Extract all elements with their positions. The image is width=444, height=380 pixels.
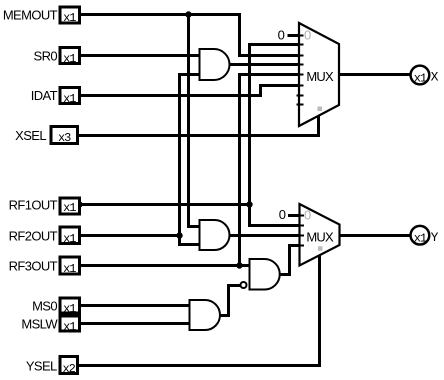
svg-text:MUX: MUX [306, 229, 334, 244]
wire constant 0 to MUX1 input0 [288, 34, 300, 37]
port box MSLW x1 [60, 316, 80, 331]
wire RF2OUT row [80, 234, 180, 237]
output pad Y x1 [411, 226, 430, 246]
wire RF3OUT row to U3 input1 [80, 264, 250, 267]
port box YSEL x2 [60, 357, 78, 374]
port box RF2OUT x1 [60, 227, 80, 244]
port box IDAT x1 [60, 88, 80, 104]
wire MEMOUT branch down to AND2 input1 [189, 15, 200, 227]
junction RF1OUT at box [76, 201, 82, 207]
svg-text:x1: x1 [63, 232, 76, 246]
svg-text:0: 0 [278, 28, 285, 43]
svg-text:x1: x1 [414, 231, 427, 245]
and-gate AND1 (SR0 AND RF2OUT) [200, 49, 230, 80]
svg-text:RF3OUT: RF3OUT [9, 259, 58, 274]
svg-text:XSEL: XSEL [15, 128, 46, 143]
port box SR0 x1 [60, 48, 80, 64]
svg-text:x1: x1 [63, 201, 76, 215]
wire RF1OUT branch up to MUX1 input1 and down to MUX2 input1 [250, 45, 300, 226]
port box XSEL x3 [51, 127, 78, 144]
svg-text:x1: x1 [63, 11, 76, 25]
junction MEMOUT branch [185, 11, 191, 17]
svg-text:0: 0 [279, 207, 286, 222]
svg-text:x2: x2 [62, 362, 75, 376]
svg-text:x1: x1 [63, 262, 76, 276]
port box MEMOUT x1 [60, 7, 80, 23]
svg-text:RF1OUT: RF1OUT [9, 198, 58, 213]
mux U6 MUX (Y output) [297, 204, 340, 266]
wire IDAT row with step up to MUX1 input5 [80, 86, 299, 96]
junction RF2OUT column [176, 232, 182, 238]
svg-text:x1: x1 [63, 302, 76, 316]
wire AND1 output to MUX1 input3 [230, 63, 300, 66]
wire AND4 output to U3 inverted input [220, 286, 241, 316]
wire RF1OUT row [80, 203, 250, 206]
wire XSEL select to MUX1 bottom [79, 114, 319, 136]
svg-text:MSLW: MSLW [21, 317, 58, 332]
svg-text:SR0: SR0 [34, 48, 58, 63]
svg-text:RF2OUT: RF2OUT [9, 228, 58, 243]
wire U3 output to MUX2 input3 [280, 246, 300, 275]
wire MUX2 output Y [340, 234, 412, 237]
inverter bubble on U3 input2 [241, 282, 247, 288]
port box MS0 x1 [60, 298, 80, 313]
svg-text:YSEL: YSEL [26, 359, 57, 374]
wire MUX1 output X [339, 73, 411, 76]
svg-text:x1: x1 [63, 52, 76, 66]
and-gate AND4 (MS0 AND MSLW) [190, 300, 221, 330]
wire constant 0 to MUX2 input0 [288, 214, 300, 217]
svg-text:x1: x1 [414, 71, 427, 85]
wire AND2 output to MUX2 input2 [230, 234, 300, 237]
port box RF1OUT x1 [60, 198, 80, 214]
junction RF3OUT column [236, 262, 242, 268]
wire YSEL select to MUX2 bottom [79, 254, 320, 366]
output pad X x1 [411, 66, 430, 86]
svg-text:x3: x3 [58, 131, 71, 145]
junction RF1OUT column [246, 201, 252, 207]
and-gate U3 (RF3OUT AND NOT ms) [250, 259, 280, 290]
wire RF2OUT branch up to AND1 input2 and down to AND2 input2 [180, 75, 200, 245]
svg-text:0: 0 [304, 208, 311, 223]
svg-text:x1: x1 [63, 92, 76, 106]
wire MEMOUT row and turn to MUX1 input2 [80, 15, 299, 56]
svg-text:IDAT: IDAT [31, 88, 58, 103]
wire SR0 to AND1 input1 [80, 54, 200, 57]
mux U5 MUX (X output) [297, 23, 340, 126]
wire MSLW to AND4 input2 [80, 322, 190, 325]
svg-text:0: 0 [304, 28, 311, 43]
and-gate AND2 (MEMOUT AND RF2OUT) [200, 220, 230, 250]
wire RF3OUT branch up to MUX1 input4 [240, 75, 300, 266]
svg-text:X: X [431, 70, 439, 85]
svg-text:MEMOUT: MEMOUT [3, 8, 58, 23]
port box RF3OUT x1 [60, 257, 80, 274]
svg-text:Y: Y [431, 230, 439, 245]
svg-text:MS0: MS0 [32, 299, 57, 314]
wire MS0 to AND4 input1 [80, 304, 190, 307]
svg-text:MUX: MUX [306, 69, 334, 84]
svg-text:x1: x1 [63, 320, 76, 334]
